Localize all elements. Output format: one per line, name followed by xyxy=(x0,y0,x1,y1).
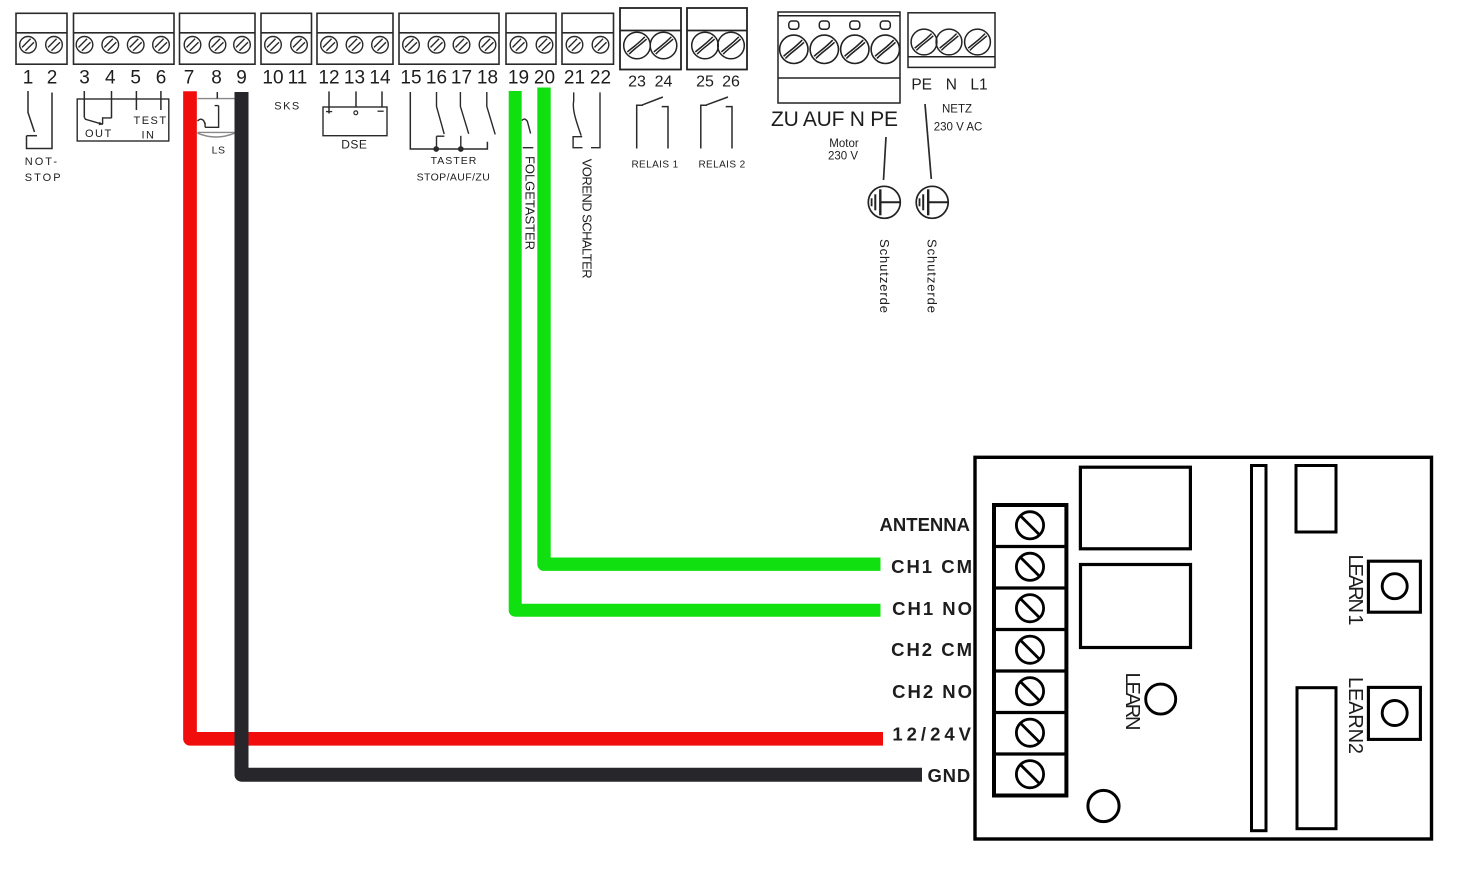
svg-text:ANTENNA: ANTENNA xyxy=(880,514,970,535)
wire stubs terminals 3-6 xyxy=(84,91,161,118)
svg-text:13: 13 xyxy=(344,68,365,89)
svg-text:26: 26 xyxy=(722,74,740,91)
terminal block 15-18 xyxy=(399,13,499,64)
screw terminal 4 xyxy=(102,37,119,54)
svg-text:3: 3 xyxy=(79,68,90,89)
svg-text:Schutzerde: Schutzerde xyxy=(877,239,892,313)
svg-text:OUT: OUT xyxy=(85,128,113,140)
wire stubs terminals 12-14 xyxy=(329,91,382,113)
screw terminal 17 xyxy=(453,37,470,54)
svg-text:VOREND SCHALTER: VOREND SCHALTER xyxy=(580,159,595,279)
screw PE xyxy=(871,35,899,63)
module screw GND xyxy=(1016,761,1043,788)
svg-text:12: 12 xyxy=(318,68,339,89)
mains PE wire xyxy=(925,104,931,179)
NOT-STOP switch symbol xyxy=(27,91,53,149)
screw terminal 22 xyxy=(592,37,609,54)
DSE plus mark xyxy=(326,111,332,113)
svg-text:7: 7 xyxy=(184,68,195,89)
block holes xyxy=(789,21,891,29)
screw terminal 23 xyxy=(624,32,651,59)
module screw 12/24V xyxy=(1016,719,1043,746)
DSE box xyxy=(323,107,387,136)
svg-text:22: 22 xyxy=(590,68,611,89)
red wire terminal 7 to 12/24V xyxy=(190,91,883,739)
svg-text:STOP/AUF/ZU: STOP/AUF/ZU xyxy=(417,171,491,183)
terminal numbers 1-22 xyxy=(23,68,611,89)
screw N xyxy=(841,35,869,63)
junction dot 16 xyxy=(433,146,439,152)
LS photocell symbol xyxy=(198,99,235,137)
receiver module outline xyxy=(975,457,1432,839)
svg-text:12/24V: 12/24V xyxy=(892,724,975,745)
svg-text:TEST: TEST xyxy=(134,115,168,127)
module screw ANTENNA xyxy=(1016,512,1043,539)
svg-text:9: 9 xyxy=(236,68,247,89)
module screw CH2 CM xyxy=(1016,636,1043,663)
module screw CH2 NO xyxy=(1016,678,1043,705)
screw terminal 12 xyxy=(321,37,338,54)
svg-text:TASTER: TASTER xyxy=(431,155,478,167)
svg-text:CH2 NO: CH2 NO xyxy=(892,681,974,702)
FOLGETASTER switch contact xyxy=(522,119,534,148)
TASTER switch 18 xyxy=(487,92,495,134)
junction dot 17 xyxy=(458,146,464,152)
svg-text:24: 24 xyxy=(655,74,673,91)
module pin labels xyxy=(880,514,975,786)
screw terminal 3 xyxy=(76,37,93,54)
relay box 1 xyxy=(1080,467,1190,549)
TASTER bus wire xyxy=(410,92,487,149)
svg-text:N: N xyxy=(946,77,957,94)
screw terminal 7 xyxy=(184,37,201,54)
TASTER switch 17 xyxy=(460,92,468,149)
RELAIS 1 contact symbol xyxy=(637,97,668,149)
screw terminal 9 xyxy=(234,37,251,54)
svg-text:21: 21 xyxy=(564,68,585,89)
svg-text:18: 18 xyxy=(477,68,498,89)
LEARN button xyxy=(1146,684,1176,714)
svg-text:STOP: STOP xyxy=(25,172,63,184)
svg-text:CH1 CM: CH1 CM xyxy=(891,556,974,577)
screw terminal 20 xyxy=(536,37,553,54)
NETZ 230 V AC label xyxy=(934,104,983,134)
svg-text:NETZ: NETZ xyxy=(942,104,972,116)
screw mains L1 xyxy=(965,29,991,55)
svg-text:14: 14 xyxy=(369,68,391,89)
svg-text:2: 2 xyxy=(47,68,58,89)
svg-text:Motor: Motor xyxy=(829,138,859,150)
motor PE wire xyxy=(884,137,887,180)
screw mains N xyxy=(936,29,962,55)
svg-text:LS: LS xyxy=(212,145,226,157)
screw terminal 6 xyxy=(153,37,170,54)
screw terminal 16 xyxy=(428,37,445,54)
svg-text:5: 5 xyxy=(130,68,141,89)
svg-text:RELAIS 1: RELAIS 1 xyxy=(631,159,678,170)
LEARN2 button xyxy=(1368,687,1420,739)
mains terminal block PE N L1 xyxy=(908,13,995,68)
PE N L1 label xyxy=(911,77,987,94)
svg-text:1: 1 xyxy=(23,68,34,89)
svg-text:6: 6 xyxy=(156,68,167,89)
DSE minus mark xyxy=(378,110,384,112)
screw terminal 18 xyxy=(479,37,496,54)
svg-text:8: 8 xyxy=(211,68,222,89)
DSE circle mark xyxy=(354,111,358,115)
screw terminal 24 xyxy=(650,32,677,59)
terminal block 23-24 xyxy=(620,8,681,70)
terminal block 21-22 xyxy=(562,13,614,64)
svg-text:230 V AC: 230 V AC xyxy=(934,122,983,134)
motor terminal block ZU AUF N PE xyxy=(778,12,900,103)
svg-text:25: 25 xyxy=(696,74,714,91)
svg-text:230 V: 230 V xyxy=(828,151,858,163)
svg-text:RELAIS 2: RELAIS 2 xyxy=(698,159,745,170)
svg-text:NOT-: NOT- xyxy=(25,156,59,168)
mounting hole xyxy=(1088,790,1119,821)
module screw CH1 CM xyxy=(1016,553,1043,580)
screw terminal 15 xyxy=(403,37,420,54)
svg-text:LEARN: LEARN xyxy=(1121,673,1143,731)
terminal numbers 23-26 xyxy=(628,74,740,91)
module screw CH1 NO xyxy=(1016,595,1043,622)
svg-text:11: 11 xyxy=(288,68,308,89)
pin header strip xyxy=(1252,466,1267,831)
green wire terminal 19 to CH1 NO xyxy=(515,91,880,610)
terminal block 25-26 xyxy=(687,8,747,70)
terminal block 3-6 xyxy=(74,13,175,64)
svg-text:DSE: DSE xyxy=(341,138,367,152)
svg-text:FOLGETASTER: FOLGETASTER xyxy=(523,156,538,250)
relay box 2 xyxy=(1081,565,1191,648)
screw terminal 19 xyxy=(510,37,527,54)
screw terminal 26 xyxy=(718,32,745,59)
RELAIS 2 contact symbol xyxy=(701,97,732,149)
VORENDSCHALTER switch symbol xyxy=(573,92,600,147)
svg-text:LEARN 1: LEARN 1 xyxy=(1344,555,1366,626)
strip dividers xyxy=(994,547,1066,755)
wire stub terminal 8 xyxy=(216,92,218,99)
component box bottom xyxy=(1297,688,1336,829)
screw terminal 21 xyxy=(566,37,583,54)
svg-text:PE: PE xyxy=(911,77,932,94)
svg-text:19: 19 xyxy=(508,68,529,89)
black wire terminal 9 to GND xyxy=(242,92,923,775)
screw mains PE xyxy=(911,29,937,55)
svg-text:L1: L1 xyxy=(970,77,987,94)
terminal block 12-14 xyxy=(317,13,393,64)
terminal block 1-2 xyxy=(16,13,67,64)
svg-text:10: 10 xyxy=(262,68,283,89)
OUT / TEST IN box xyxy=(77,99,169,141)
svg-text:GND: GND xyxy=(927,765,971,786)
svg-text:23: 23 xyxy=(628,74,646,91)
module terminal strip xyxy=(994,505,1066,796)
screw terminal 11 xyxy=(291,37,308,54)
Motor 230 V label xyxy=(828,138,859,163)
svg-text:IN: IN xyxy=(142,130,156,142)
svg-text:15: 15 xyxy=(400,68,421,89)
screw ZU xyxy=(780,35,808,63)
terminal block 19-20 xyxy=(506,13,556,64)
svg-text:SKS: SKS xyxy=(274,101,301,113)
svg-text:CH2 CM: CH2 CM xyxy=(891,639,974,660)
svg-text:ZU AUF N PE: ZU AUF N PE xyxy=(771,108,898,131)
TASTER switch 16 xyxy=(437,92,445,149)
screw terminal 25 xyxy=(692,32,719,59)
svg-text:20: 20 xyxy=(534,68,555,89)
screw terminal 10 xyxy=(265,37,282,54)
screw terminal 8 xyxy=(209,37,226,54)
terminal block 10-11 xyxy=(261,13,312,64)
LEARN1 button xyxy=(1368,561,1420,612)
OUT switch contact xyxy=(84,117,111,125)
screw terminal 5 xyxy=(127,37,144,54)
NOT-STOP label xyxy=(25,156,63,184)
screw terminal 13 xyxy=(346,37,363,54)
LS switch contact xyxy=(198,106,219,128)
terminal block 7-9 xyxy=(180,13,256,64)
svg-text:LEARN2: LEARN2 xyxy=(1344,677,1366,754)
screw terminal 2 xyxy=(46,37,63,54)
svg-text:17: 17 xyxy=(451,68,472,89)
earth symbol mains xyxy=(916,186,948,218)
screw terminal 14 xyxy=(372,37,389,54)
screw AUF xyxy=(810,35,838,63)
svg-text:4: 4 xyxy=(105,68,116,89)
component box top xyxy=(1296,466,1336,533)
svg-text:16: 16 xyxy=(426,68,447,89)
svg-text:CH1 NO: CH1 NO xyxy=(892,598,974,619)
green wire terminal 20 to CH1 CM xyxy=(544,88,881,565)
earth symbol motor xyxy=(868,186,900,218)
screw terminal 1 xyxy=(20,37,37,54)
svg-text:Schutzerde: Schutzerde xyxy=(925,239,940,313)
